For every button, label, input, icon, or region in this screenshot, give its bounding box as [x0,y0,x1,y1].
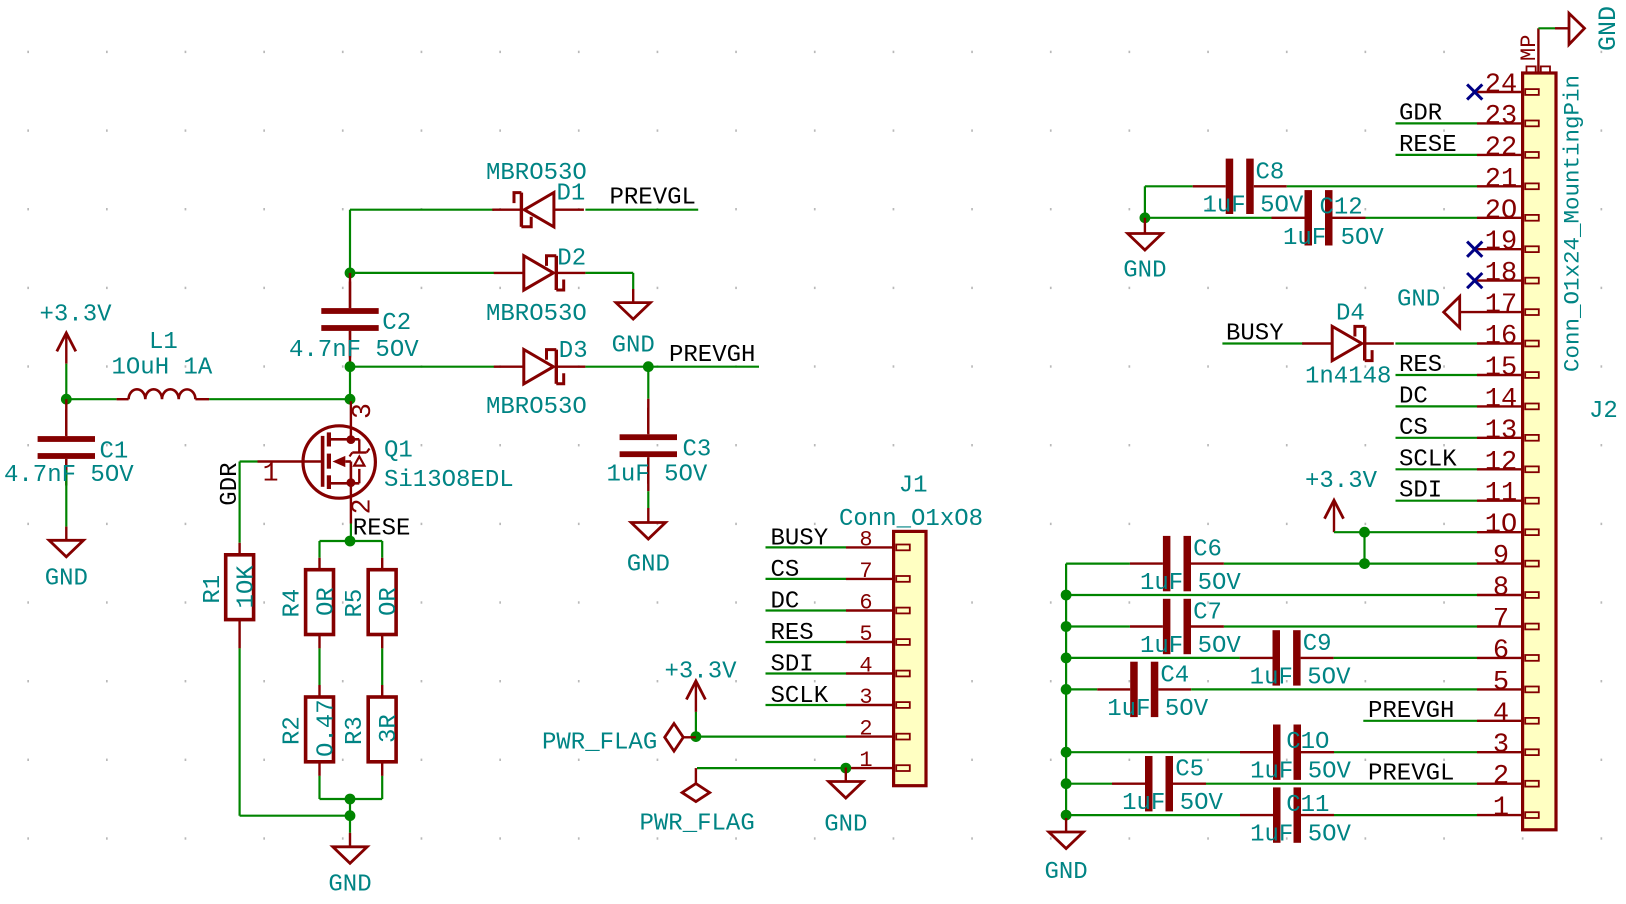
svg-text:Q1: Q1 [384,438,413,465]
svg-text:1uF 5OV: 1uF 5OV [1107,696,1208,723]
svg-text:23: 23 [1485,102,1517,132]
svg-text:PREVGH: PREVGH [669,342,755,369]
svg-text:SCLK: SCLK [771,683,829,710]
svg-text:1: 1 [859,748,872,773]
svg-text:16: 16 [1485,322,1517,352]
svg-text:4.7nF 5OV: 4.7nF 5OV [4,462,134,489]
svg-text:17: 17 [1485,291,1517,321]
svg-text:MBRO53O: MBRO53O [486,160,587,187]
svg-text:7: 7 [1493,605,1509,635]
svg-text:13: 13 [1485,416,1517,446]
svg-text:Si13O8EDL: Si13O8EDL [384,467,514,494]
svg-text:5: 5 [859,622,872,647]
svg-text:2: 2 [1493,762,1509,792]
svg-text:GND: GND [627,551,670,578]
svg-text:GND: GND [824,812,867,839]
svg-text:1uF 5OV: 1uF 5OV [1140,633,1241,660]
svg-text:R3: R3 [342,716,369,745]
svg-text:C4: C4 [1160,662,1189,689]
svg-text:SCLK: SCLK [1399,446,1457,473]
svg-text:RES: RES [1399,352,1442,379]
svg-text:6: 6 [1493,636,1509,666]
svg-text:C3: C3 [683,437,712,464]
svg-text:8: 8 [859,527,872,552]
svg-text:4: 4 [859,654,872,679]
svg-text:1uF 5OV: 1uF 5OV [1203,193,1304,220]
svg-text:3: 3 [348,403,378,419]
svg-text:BUSY: BUSY [1226,321,1284,348]
svg-text:6: 6 [859,591,872,616]
svg-text:RESE: RESE [1399,132,1457,159]
svg-text:MBRO53O: MBRO53O [486,394,587,421]
svg-text:OR: OR [313,587,340,616]
svg-text:C9: C9 [1303,631,1332,658]
svg-text:SDI: SDI [771,652,814,679]
svg-text:C11: C11 [1286,792,1329,819]
svg-text:5: 5 [1493,668,1509,698]
svg-text:24: 24 [1485,71,1517,101]
svg-text:1: 1 [263,459,279,489]
svg-text:D2: D2 [557,246,586,273]
svg-text:PREVGL: PREVGL [610,185,696,212]
svg-text:D3: D3 [559,338,588,365]
svg-text:GND: GND [1044,859,1087,886]
svg-text:2: 2 [347,498,377,514]
svg-text:15: 15 [1485,354,1517,384]
svg-text:GND: GND [45,566,88,593]
svg-text:C5: C5 [1175,757,1204,784]
svg-text:11: 11 [1485,479,1517,509]
svg-text:14: 14 [1485,385,1517,415]
svg-text:18: 18 [1485,259,1517,289]
svg-text:3: 3 [1493,731,1509,761]
svg-text:C2: C2 [382,310,411,337]
svg-text:C1O: C1O [1286,729,1329,756]
svg-text:1uF 5OV: 1uF 5OV [1140,570,1241,597]
svg-text:DC: DC [1399,383,1428,410]
svg-text:C12: C12 [1320,195,1363,222]
svg-text:1uF 5OV: 1uF 5OV [1250,822,1351,849]
svg-text:BUSY: BUSY [771,525,829,552]
svg-text:12: 12 [1485,448,1517,478]
svg-text:MBRO53O: MBRO53O [486,301,587,328]
svg-text:1OK: 1OK [233,565,260,609]
svg-text:Conn_O1x24_MountingPin: Conn_O1x24_MountingPin [1560,75,1586,372]
svg-text:1uF 5OV: 1uF 5OV [1250,664,1351,691]
svg-text:L1: L1 [149,329,178,356]
svg-text:R2: R2 [280,716,307,745]
svg-text:CS: CS [771,557,800,584]
svg-text:1uF 5OV: 1uF 5OV [607,462,708,489]
svg-text:R1: R1 [200,575,227,604]
svg-text:1uF 5OV: 1uF 5OV [1283,225,1384,252]
svg-text:RESE: RESE [353,516,411,543]
svg-text:1uF 5OV: 1uF 5OV [1250,759,1351,786]
svg-text:2: 2 [859,717,872,742]
svg-text:CS: CS [1399,415,1428,442]
svg-text:+3.3V: +3.3V [1305,468,1378,495]
svg-text:DC: DC [771,589,800,616]
svg-text:1: 1 [1493,794,1509,824]
svg-text:4.7nF 5OV: 4.7nF 5OV [289,337,419,364]
svg-text:C6: C6 [1193,537,1222,564]
svg-text:1OuH 1A: 1OuH 1A [112,355,213,382]
svg-text:4: 4 [1493,699,1509,729]
svg-text:2O: 2O [1485,196,1517,226]
svg-text:+3.3V: +3.3V [665,659,738,686]
svg-text:1O: 1O [1485,511,1517,541]
svg-text:7: 7 [859,559,872,584]
svg-text:PWR_FLAG: PWR_FLAG [542,730,657,757]
svg-text:1uF 5OV: 1uF 5OV [1122,790,1223,817]
svg-text:J2: J2 [1589,398,1618,425]
svg-text:1n4148: 1n4148 [1305,364,1391,391]
svg-text:3R: 3R [376,714,403,743]
svg-text:GND: GND [1397,287,1440,314]
svg-text:+3.3V: +3.3V [40,302,113,329]
svg-text:R5: R5 [342,589,369,618]
svg-text:GDR: GDR [1399,100,1442,127]
svg-text:R4: R4 [280,589,307,618]
svg-text:8: 8 [1493,574,1509,604]
svg-text:GND: GND [1123,257,1166,284]
svg-text:MP: MP [1517,35,1542,61]
svg-text:RES: RES [771,620,814,647]
svg-text:SDI: SDI [1399,478,1442,505]
svg-text:3: 3 [859,685,872,710]
svg-text:GND: GND [1594,6,1623,51]
svg-text:PWR_FLAG: PWR_FLAG [640,811,755,838]
svg-text:GND: GND [328,872,371,899]
svg-text:O.47: O.47 [313,699,340,757]
svg-text:C8: C8 [1256,160,1285,187]
svg-text:OR: OR [376,587,403,616]
svg-text:22: 22 [1485,133,1517,163]
svg-text:9: 9 [1493,542,1509,572]
svg-text:J1: J1 [899,473,928,500]
svg-text:GND: GND [612,333,655,360]
svg-text:19: 19 [1485,228,1517,258]
svg-text:C7: C7 [1193,600,1222,627]
svg-text:D4: D4 [1336,301,1365,328]
svg-text:21: 21 [1485,165,1517,195]
